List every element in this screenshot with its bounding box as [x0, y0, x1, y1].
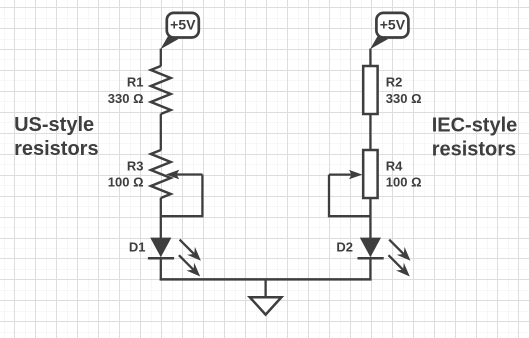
svg-text:+5V: +5V — [380, 17, 406, 33]
wire: D2 cathode to bottom rail — [369, 258, 371, 279]
resistor R1 (US zigzag) — [151, 66, 171, 114]
wire: bottom rail — [160, 278, 372, 281]
wire: R3 bottom to D1 anode — [160, 198, 162, 238]
svg-text:D2: D2 — [336, 239, 353, 254]
power flag +5V (right net label) — [370, 13, 408, 49]
wiper arrow of R4 — [329, 170, 362, 179]
light emission arrow 1 of D2 — [389, 240, 410, 261]
svg-text:IEC-style: IEC-style — [432, 114, 518, 136]
power flag +5V (left net label) — [160, 13, 198, 49]
wire: +5V flag to R1 top — [160, 49, 162, 67]
svg-text:R3: R3 — [127, 159, 144, 174]
wire: +5V flag to R2 top (right) — [369, 49, 371, 67]
LED D2 (diode triangle) — [360, 238, 381, 258]
light emission arrow 2 of D2 — [389, 255, 410, 276]
svg-text:R4: R4 — [386, 159, 403, 174]
wire: R1 bottom to R3 top — [160, 114, 162, 150]
LED D1 (diode triangle) — [150, 238, 171, 258]
wiper arrow of R3 — [166, 170, 203, 179]
svg-text:D1: D1 — [129, 239, 146, 254]
svg-text:100 Ω: 100 Ω — [386, 175, 422, 190]
resistor R4 (IEC box potentiometer body) — [363, 150, 377, 198]
svg-text:100 Ω: 100 Ω — [108, 175, 144, 190]
wire: ground stub — [264, 279, 266, 297]
svg-text:R2: R2 — [386, 75, 403, 90]
svg-text:330 Ω: 330 Ω — [386, 91, 422, 106]
light emission arrow 2 of D1 — [179, 255, 200, 276]
svg-text:R1: R1 — [127, 75, 144, 90]
wire: R4 wiper loop (left, down, right to main wire) — [329, 175, 370, 217]
resistor R2 (IEC box) — [363, 66, 377, 114]
svg-text:US-style: US-style — [14, 114, 94, 136]
wire: R2 bottom to R4 top — [369, 114, 371, 150]
cathode bar of D2 — [358, 257, 384, 260]
svg-text:resistors: resistors — [14, 138, 99, 160]
resistor R3 (US zigzag potentiometer body) — [151, 150, 171, 198]
light emission arrow 1 of D1 — [180, 240, 201, 261]
svg-text:resistors: resistors — [432, 139, 517, 161]
cathode bar of D1 — [148, 257, 174, 260]
ground — [250, 297, 282, 314]
svg-text:330 Ω: 330 Ω — [108, 91, 144, 106]
wire: R4 bottom to D2 anode — [369, 198, 371, 238]
svg-text:+5V: +5V — [170, 17, 196, 33]
wire: R3 wiper loop (right, down, left to main wire) — [161, 175, 203, 217]
wire: D1 cathode to bottom rail — [160, 258, 162, 279]
